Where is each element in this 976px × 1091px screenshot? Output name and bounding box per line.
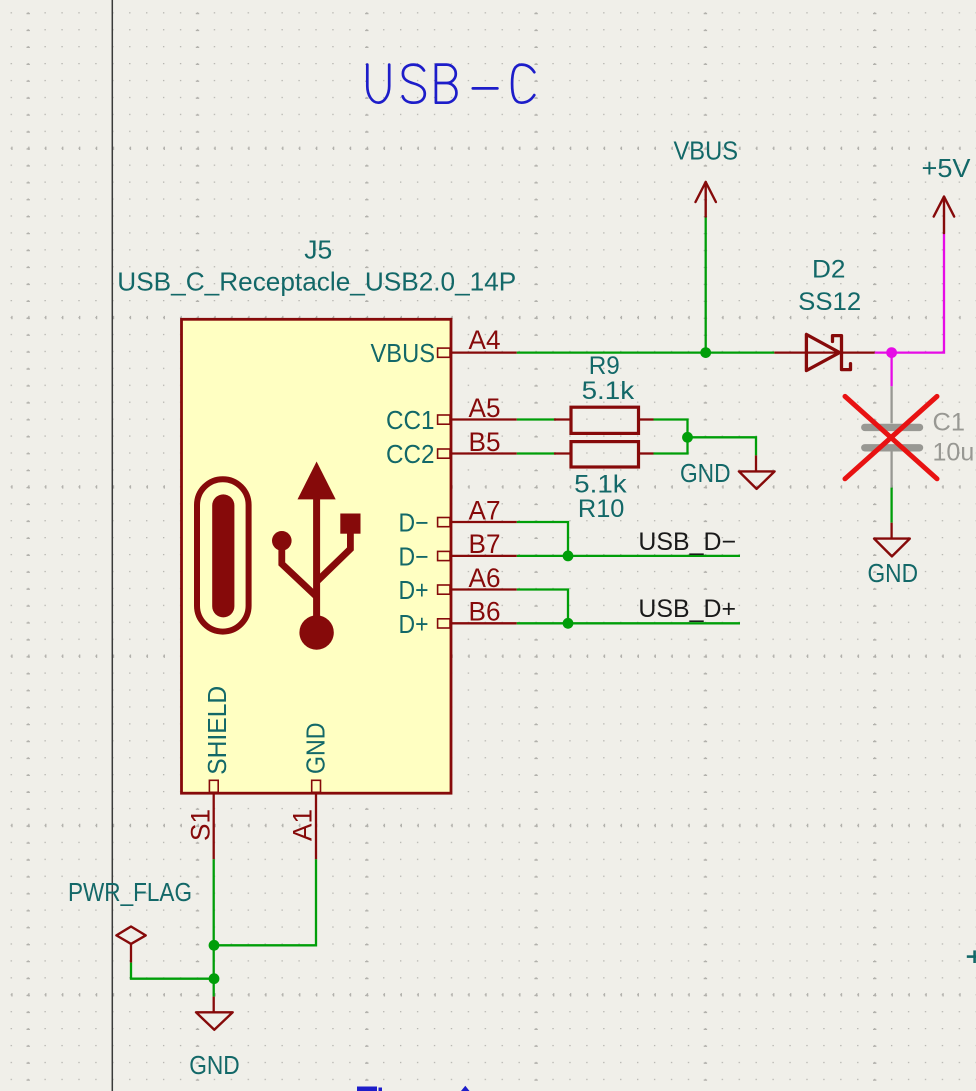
- wire D+ B6 / USB_D+: [517, 622, 740, 624]
- node junction C1 tap: [886, 347, 897, 358]
- svg-text:SS12: SS12: [798, 288, 861, 316]
- wire D+ A6: [517, 590, 568, 624]
- wire R9 out: [654, 420, 688, 437]
- svg-text:A6: A6: [469, 563, 501, 593]
- pin CC1 A5: [386, 393, 517, 435]
- wire to GND: [688, 437, 757, 455]
- wire D- B7 / USB_D-: [517, 555, 740, 557]
- capacitor C1 (DNP, greyed): [865, 386, 976, 487]
- pin D- B7: [399, 529, 517, 571]
- svg-text:10uF: 10uF: [933, 439, 976, 467]
- svg-text:D−: D−: [399, 508, 429, 538]
- svg-text:B5: B5: [469, 427, 501, 457]
- svg-text:A1: A1: [288, 809, 318, 841]
- wire VBUS arrow stem: [705, 217, 707, 353]
- power flag PWR_FLAG: [68, 877, 192, 963]
- title USB-C: [367, 65, 534, 103]
- partial + label at right edge: [967, 950, 976, 963]
- USB trident icon: [272, 462, 361, 650]
- resistor R10: [554, 442, 654, 524]
- svg-text:S1: S1: [186, 809, 216, 841]
- svg-text:VBUS: VBUS: [371, 338, 436, 368]
- node junction VBUS branch: [700, 347, 711, 358]
- svg-text:GND: GND: [301, 723, 331, 775]
- svg-text:GND: GND: [868, 558, 919, 588]
- svg-text:D+: D+: [399, 609, 429, 639]
- node junction CC resistors: [682, 432, 693, 443]
- wire C1 to GND: [890, 488, 892, 523]
- component J5 body: [182, 319, 452, 793]
- ground GND (C1): [868, 523, 919, 588]
- svg-text:USB_C_Receptacle_USB2.0_14P: USB_C_Receptacle_USB2.0_14P: [117, 267, 516, 297]
- pin GND A1: [288, 723, 331, 860]
- node junction shield/gnd: [209, 940, 220, 951]
- wire diode to +5V (magenta net): [875, 233, 944, 353]
- DNP cross on C1: [845, 396, 937, 478]
- svg-text:A5: A5: [469, 393, 501, 423]
- svg-text:SHIELD: SHIELD: [202, 686, 232, 775]
- svg-text:R10: R10: [578, 495, 625, 523]
- power symbol VBUS: [696, 182, 716, 217]
- wire R10 out: [654, 437, 688, 454]
- partial blue text at bottom edge: [357, 1086, 470, 1091]
- wire pwr_flag to junction: [131, 963, 214, 979]
- power symbol +5V: [934, 197, 955, 234]
- svg-text:B6: B6: [469, 597, 501, 627]
- svg-text:D+: D+: [399, 575, 429, 605]
- svg-text:J5: J5: [304, 235, 332, 265]
- svg-text:PWR_FLAG: PWR_FLAG: [68, 877, 192, 907]
- svg-text:CC1: CC1: [386, 405, 435, 435]
- svg-text:GND: GND: [680, 458, 731, 488]
- svg-text:D−: D−: [399, 542, 429, 572]
- node junction pwr_flag: [209, 973, 220, 984]
- svg-text:CC2: CC2: [386, 439, 435, 469]
- svg-text:+5V: +5V: [922, 153, 972, 183]
- ground GND (bottom): [189, 997, 240, 1080]
- svg-text:A7: A7: [469, 495, 501, 525]
- svg-text:USB_D−: USB_D−: [638, 528, 736, 556]
- node junction D-: [563, 551, 574, 562]
- svg-text:VBUS: VBUS: [674, 135, 739, 165]
- wire CC2 to R10: [517, 452, 556, 454]
- pin D- A7: [399, 495, 517, 537]
- pin D+ A6: [399, 563, 517, 605]
- wire GND pin down and left: [214, 859, 316, 945]
- wire CC1 to R9: [517, 418, 556, 420]
- node junction D+: [563, 618, 574, 629]
- svg-text:USB_D+: USB_D+: [638, 595, 736, 623]
- svg-text:C1: C1: [933, 409, 966, 437]
- svg-text:B7: B7: [469, 529, 501, 559]
- ground GND (CC): [680, 455, 775, 489]
- pin CC2 B5: [386, 427, 517, 469]
- svg-text:D2: D2: [812, 256, 846, 284]
- pin VBUS A4: [371, 325, 517, 368]
- svg-text:A4: A4: [469, 325, 501, 355]
- pin D+ B6: [399, 597, 517, 639]
- svg-text:GND: GND: [189, 1050, 240, 1080]
- svg-text:5.1k: 5.1k: [582, 377, 635, 405]
- wire SHIELD down: [213, 859, 215, 996]
- wire D- A7: [517, 522, 568, 556]
- pin SHIELD S1: [186, 686, 232, 860]
- wire VBUS A4 to diode: [517, 351, 775, 353]
- wire down to C1: [890, 353, 892, 387]
- diode D2 SS12: [774, 256, 875, 371]
- resistor R9: [554, 352, 654, 433]
- USB-C connector pill icon: [197, 479, 249, 631]
